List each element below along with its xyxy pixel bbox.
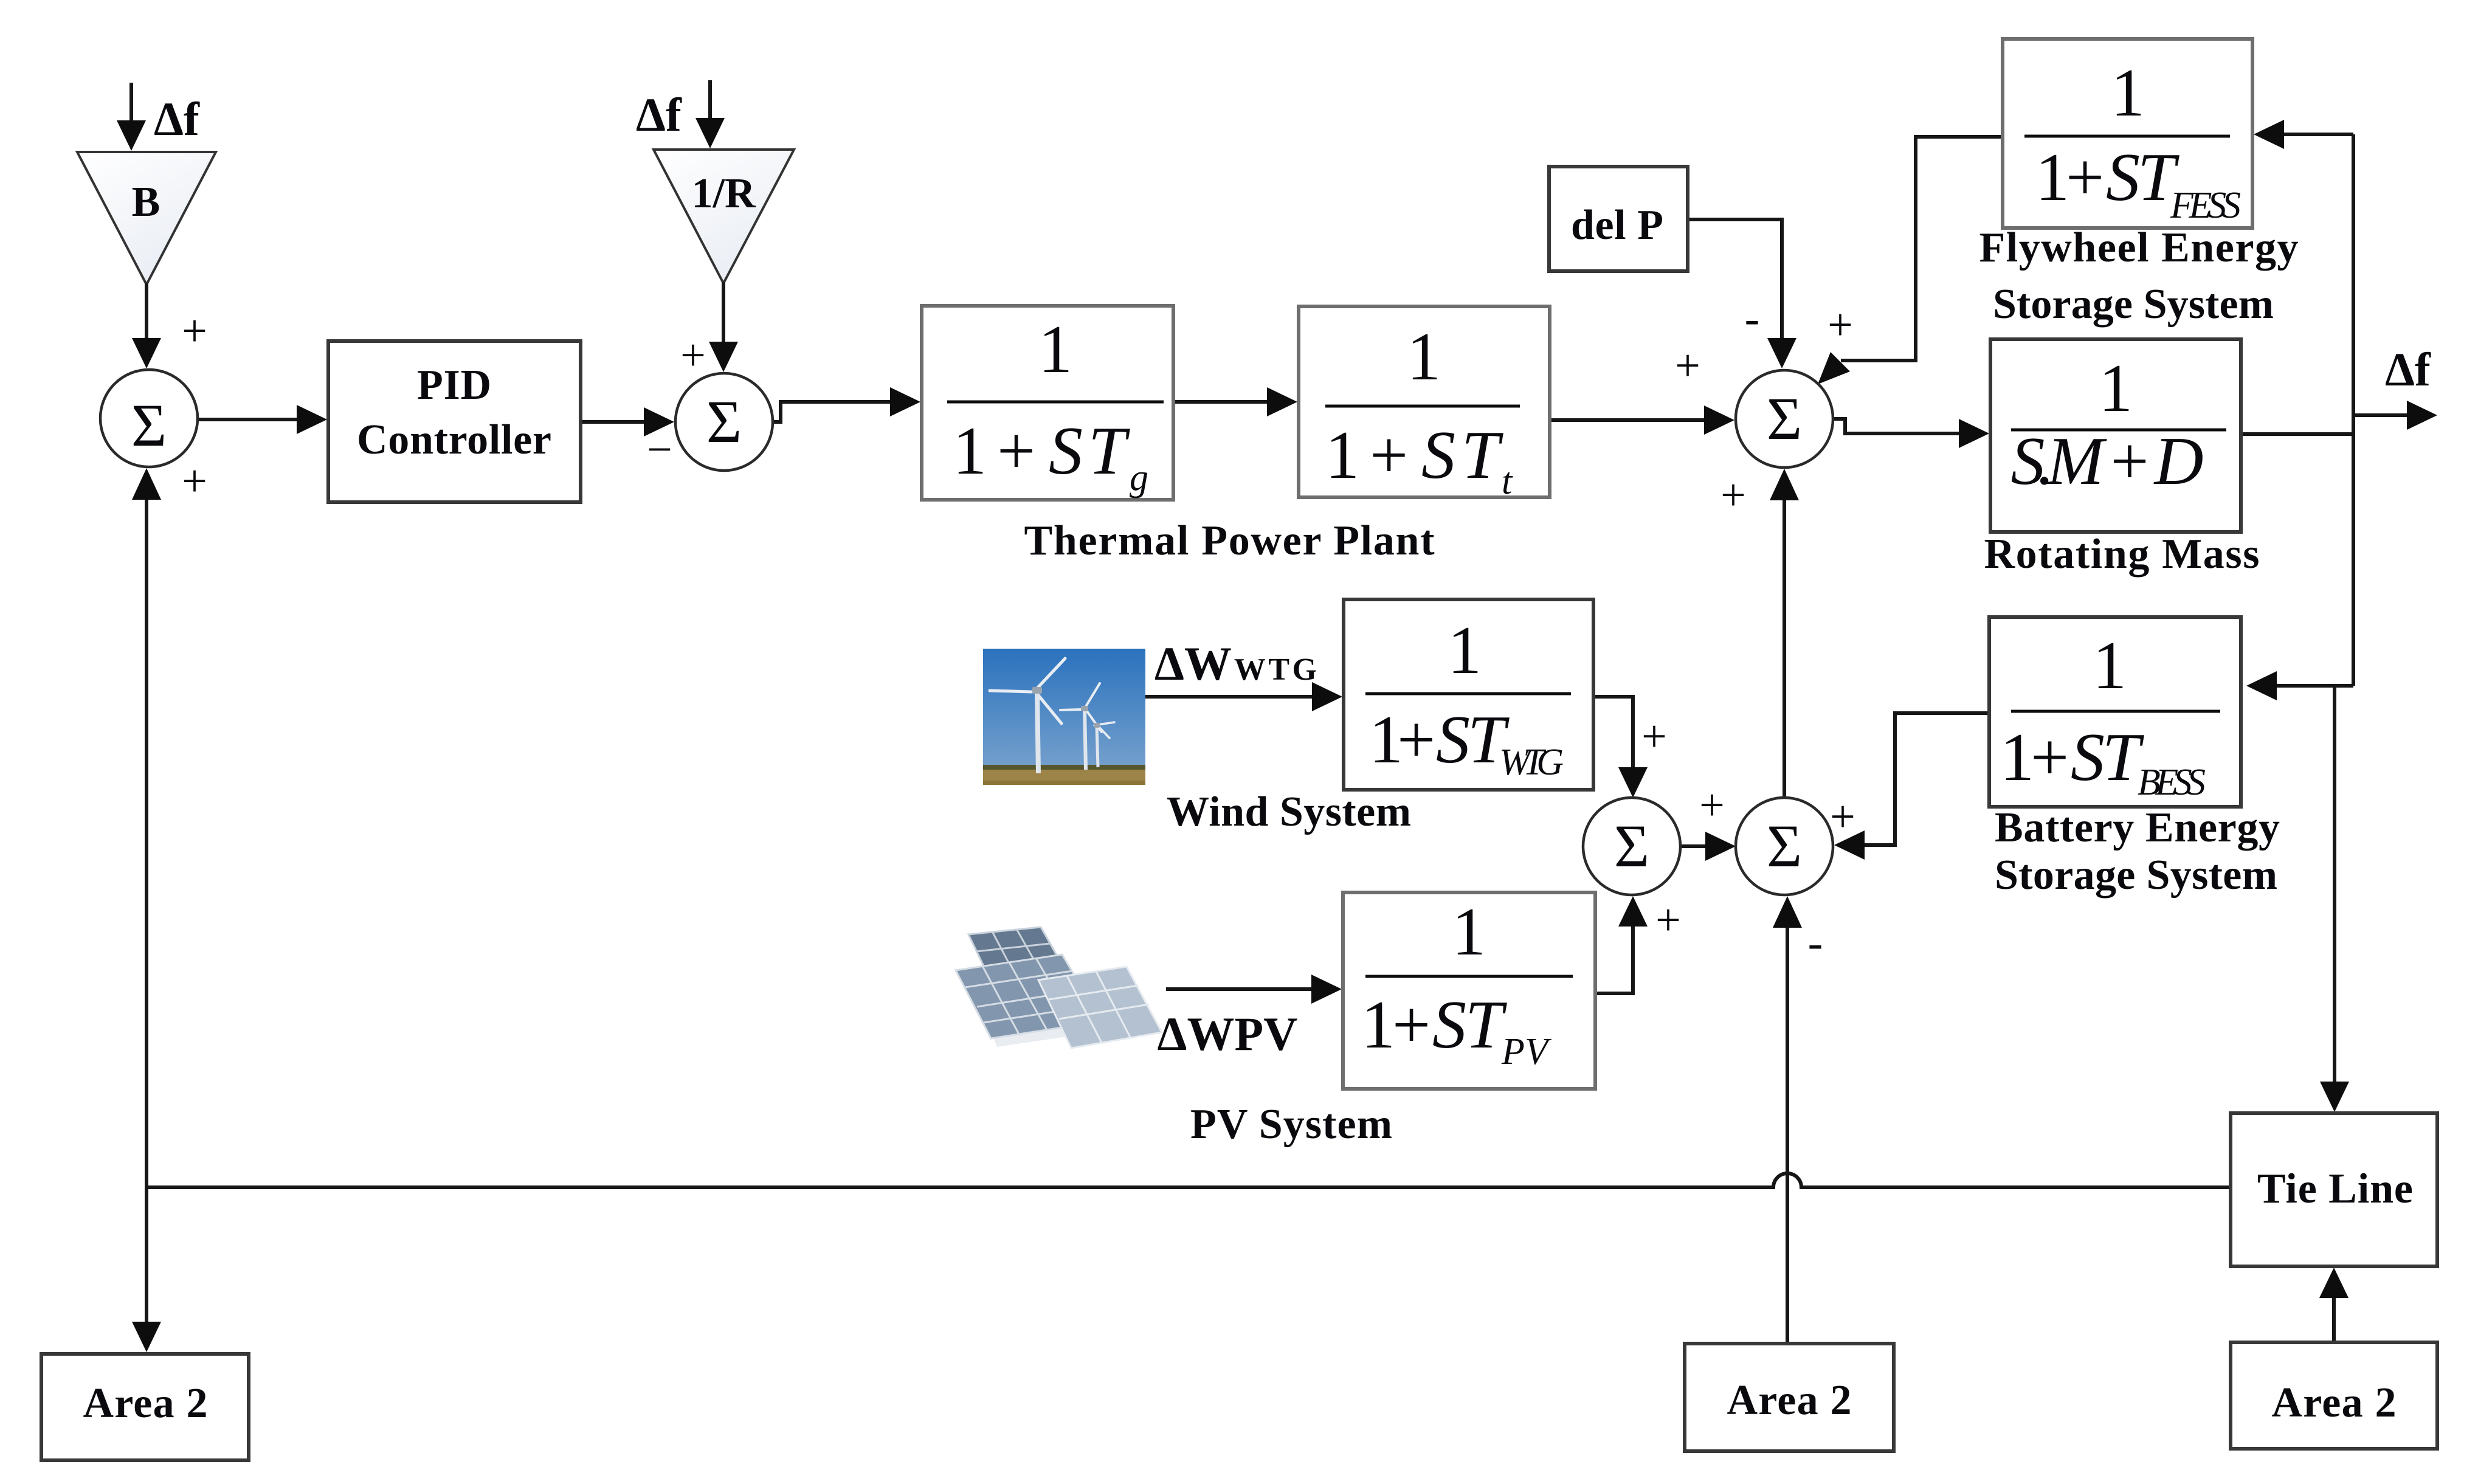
svg-text:1: 1 — [1448, 613, 1482, 688]
svg-text:T: T — [1462, 418, 1503, 493]
svg-text:del P: del P — [1571, 202, 1663, 249]
svg-text:Area 2: Area 2 — [1727, 1377, 1852, 1424]
svg-text:S: S — [1436, 702, 1470, 778]
svg-text:+: + — [997, 413, 1035, 489]
svg-text:1/R: 1/R — [692, 170, 756, 217]
svg-text:+: + — [182, 457, 207, 506]
svg-text:S: S — [2106, 140, 2140, 215]
svg-text:+: + — [2066, 140, 2104, 215]
svg-text:+: + — [1720, 471, 1746, 520]
svg-text:Rotating Mass: Rotating Mass — [1984, 531, 2260, 578]
svg-text:S: S — [2071, 720, 2105, 795]
svg-text:+: + — [182, 306, 207, 356]
svg-text:BESS: BESS — [2138, 762, 2206, 803]
svg-text:Flywheel Energy: Flywheel Energy — [1979, 224, 2299, 271]
svg-text:PID: PID — [417, 362, 491, 409]
svg-text:1: 1 — [1407, 319, 1441, 395]
svg-text:S: S — [1432, 987, 1466, 1063]
svg-text:T: T — [1465, 987, 1507, 1063]
svg-text:Thermal Power Plant: Thermal Power Plant — [1024, 517, 1435, 564]
svg-text:1: 1 — [953, 413, 987, 489]
svg-text:Tie Line: Tie Line — [2257, 1165, 2413, 1212]
svg-text:ΔWPV: ΔWPV — [1158, 1007, 1298, 1060]
svg-text:+: + — [1830, 792, 1855, 842]
svg-text:Storage System: Storage System — [1993, 281, 2274, 328]
svg-text:g: g — [1130, 457, 1148, 499]
svg-text:1: 1 — [2000, 720, 2034, 795]
svg-text:Σ: Σ — [706, 388, 742, 455]
svg-text:Σ: Σ — [131, 392, 167, 459]
svg-text:PV: PV — [1501, 1031, 1551, 1072]
svg-text:+: + — [1370, 418, 1408, 493]
svg-text:1: 1 — [2111, 55, 2145, 131]
svg-text:+: + — [1397, 702, 1435, 778]
svg-text:1: 1 — [2035, 140, 2069, 215]
svg-text:Area 2: Area 2 — [2272, 1379, 2397, 1426]
svg-text:FESS: FESS — [2170, 185, 2241, 226]
svg-text:Δf: Δf — [154, 92, 200, 145]
svg-text:+: + — [1641, 712, 1667, 762]
svg-text:T: T — [1088, 413, 1130, 489]
svg-text:Battery Energy: Battery Energy — [1995, 804, 2280, 851]
svg-text:+: + — [1827, 300, 1853, 350]
svg-text:S.M + D: S.M + D — [2011, 424, 2204, 499]
svg-text:+: + — [680, 331, 706, 381]
svg-text:PV System: PV System — [1190, 1101, 1392, 1148]
svg-text:S: S — [1421, 418, 1455, 493]
svg-text:1: 1 — [1038, 312, 1072, 387]
svg-text:Controller: Controller — [357, 416, 551, 463]
svg-text:+: + — [1392, 987, 1431, 1063]
svg-text:Area 2: Area 2 — [83, 1380, 208, 1427]
svg-text:Σ: Σ — [1767, 385, 1802, 452]
svg-text:1: 1 — [2099, 351, 2133, 426]
svg-text:Δf: Δf — [2385, 343, 2431, 396]
svg-text:Δf: Δf — [636, 88, 682, 141]
svg-text:Storage System: Storage System — [1995, 852, 2277, 899]
svg-text:Σ: Σ — [1614, 812, 1649, 880]
svg-text:-: - — [1745, 294, 1760, 343]
svg-text:WTG: WTG — [1499, 742, 1564, 783]
svg-text:S: S — [1049, 413, 1083, 489]
svg-text:1: 1 — [1452, 894, 1486, 970]
svg-text:-: - — [1808, 918, 1823, 968]
svg-text:+: + — [1699, 781, 1725, 830]
svg-text:−: − — [647, 425, 672, 475]
svg-text:+: + — [1655, 896, 1681, 945]
svg-text:1: 1 — [1361, 987, 1395, 1063]
svg-text:Wind System: Wind System — [1167, 789, 1411, 835]
svg-text:B: B — [132, 179, 160, 226]
svg-text:+: + — [1675, 341, 1700, 391]
svg-text:Σ: Σ — [1767, 812, 1802, 880]
svg-text:t: t — [1502, 461, 1513, 502]
svg-text:1: 1 — [2093, 628, 2127, 703]
svg-text:1: 1 — [1325, 418, 1359, 493]
svg-text:+: + — [2031, 720, 2069, 795]
